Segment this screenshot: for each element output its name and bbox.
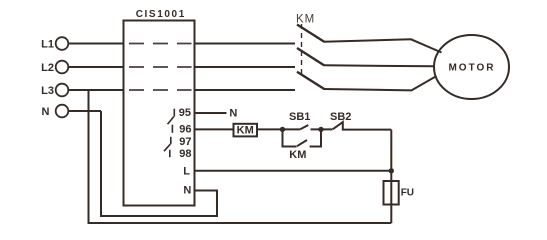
svg-text:N: N (229, 108, 237, 120)
svg-text:L3: L3 (41, 85, 54, 97)
svg-text:L: L (183, 166, 190, 178)
svg-text:KM: KM (289, 149, 306, 161)
svg-text:SB1: SB1 (289, 111, 310, 123)
svg-text:MOTOR: MOTOR (448, 63, 495, 74)
svg-text:CIS1001: CIS1001 (136, 9, 186, 20)
svg-text:N: N (183, 185, 191, 197)
svg-text:L1: L1 (41, 39, 54, 51)
svg-text:98: 98 (179, 148, 191, 160)
svg-text:L2: L2 (41, 62, 54, 74)
svg-text:N: N (42, 106, 50, 118)
svg-text:KM: KM (296, 14, 315, 26)
svg-text:96: 96 (179, 124, 191, 136)
svg-text:KM: KM (237, 125, 254, 137)
svg-text:97: 97 (179, 136, 191, 148)
svg-text:FU: FU (401, 188, 414, 199)
svg-text:95: 95 (179, 107, 191, 119)
svg-text:SB2: SB2 (330, 111, 351, 123)
